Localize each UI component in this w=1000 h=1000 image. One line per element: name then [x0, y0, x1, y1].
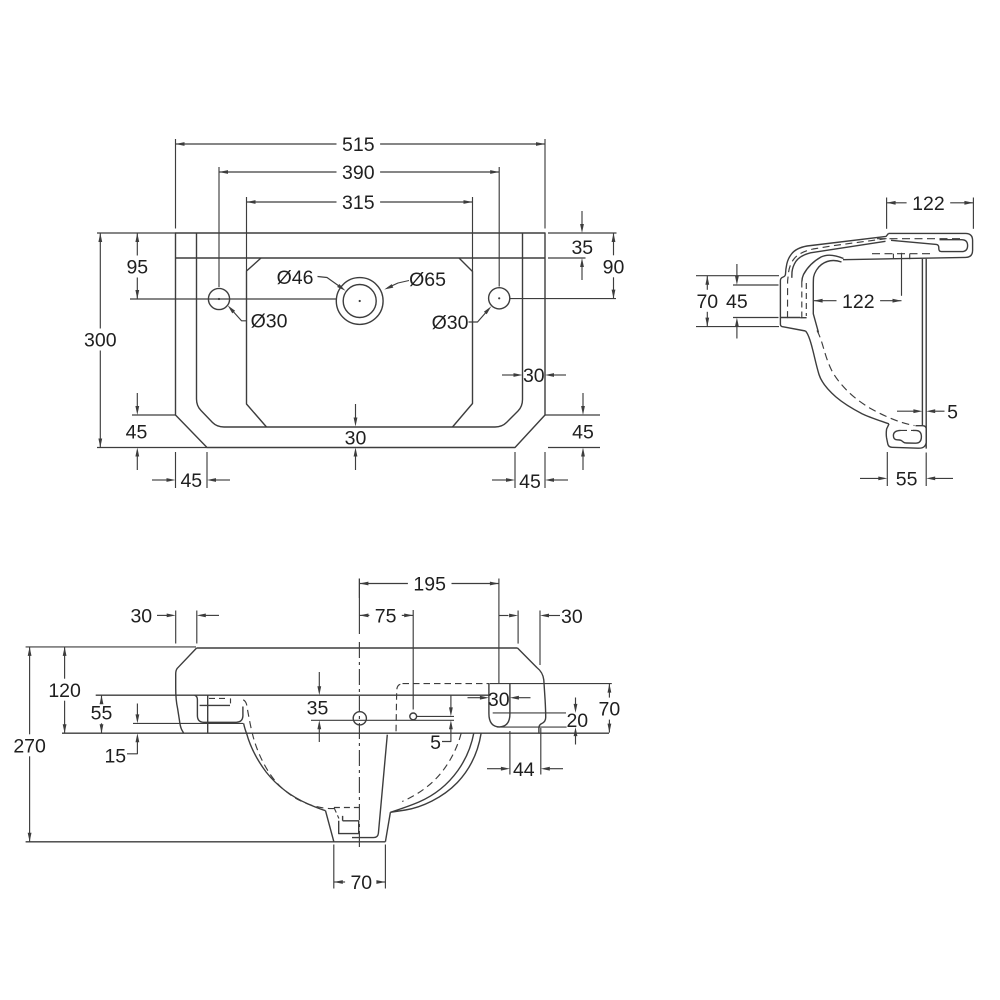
svg-text:55: 55: [91, 702, 113, 724]
dimension 35 front view centre: [318, 672, 320, 687]
front view: outer outline top and sides: [197, 647, 518, 649]
svg-text:30: 30: [345, 427, 367, 449]
dimension 35 right: [548, 257, 586, 259]
dimension 70 side view left: [696, 275, 779, 277]
dimension 30 right side: [502, 374, 514, 376]
front view: ledge pocket top line solid right: [489, 683, 612, 685]
svg-text:122: 122: [842, 291, 875, 313]
front view: left fixing pocket outline: [195, 695, 243, 722]
front view: bowl right underside curve: [390, 733, 481, 812]
svg-text:5: 5: [947, 401, 958, 423]
svg-text:70: 70: [696, 291, 718, 313]
dimension 55 side view bottom: [886, 452, 888, 486]
side view: rim slab outer outline: [843, 233, 973, 259]
side view: hidden dashed edge along slope and front: [788, 239, 887, 321]
dimension 270 front view left: [29, 647, 31, 734]
side view: bowl inner hidden dashed curve: [817, 331, 915, 426]
svg-text:35: 35: [571, 237, 593, 259]
svg-text:30: 30: [561, 606, 583, 628]
front view: deck edge line lower: [311, 719, 454, 721]
dimension 70 front view right: [608, 684, 610, 698]
front view: left pocket inner vertical: [207, 695, 209, 733]
dimension 45 left vertical: [132, 414, 176, 416]
svg-text:390: 390: [342, 162, 375, 184]
front view: left pocket inner horizontal: [200, 704, 230, 706]
top view: waste hole inner circle: [343, 285, 376, 318]
front view: trap inner rectangle: [339, 816, 359, 834]
side view: slab tick lines: [892, 254, 894, 259]
side view: bowl outer curve: [806, 331, 890, 424]
side view: bracket slot rounded recess: [893, 430, 921, 443]
dimension 315: [246, 197, 248, 271]
front view: trap hidden dashed horizontal: [334, 807, 359, 809]
top view: inner rim offset outline: [197, 233, 523, 427]
svg-text:95: 95: [126, 257, 148, 279]
dimension 195 front view: [358, 579, 360, 599]
top view: right tap hole circle: [489, 288, 510, 309]
svg-text:Ø46: Ø46: [277, 267, 314, 289]
svg-text:70: 70: [599, 699, 621, 721]
front view: deck edge line upper: [417, 715, 454, 717]
svg-text:270: 270: [13, 735, 46, 757]
dimension 5 side view wall gap: [897, 410, 914, 412]
dimension 300 left: [97, 447, 207, 449]
dimension 45 side view left: [733, 284, 779, 286]
svg-text:44: 44: [513, 759, 535, 781]
front view: channel bottom line: [497, 726, 567, 728]
front view: fixing slot 30mm: [489, 684, 510, 727]
dimension 44 front view: [509, 731, 511, 775]
front view: bottom edge line full width: [62, 732, 609, 734]
svg-text:195: 195: [413, 574, 446, 596]
side view: rim slab inner hidden dashed top: [877, 238, 963, 240]
dimension 30 bottom centre: [355, 404, 357, 418]
front view: centre line dash-dot: [358, 579, 360, 635]
dimension 20 front view: [575, 698, 577, 705]
top view: rim front edge line: [176, 257, 546, 259]
dimension 122 top of side view: [886, 198, 888, 229]
side view: rim slab lower hidden dashed line: [872, 253, 934, 255]
dimension 75 front view: [412, 610, 414, 710]
dimension 45 right vertical: [545, 414, 600, 416]
side view: bottom fixing bracket outline: [886, 424, 926, 448]
dimension 30 front view right: [499, 615, 509, 617]
top view: basin opening right edge with chamfer: [453, 258, 473, 427]
svg-text:55: 55: [896, 469, 918, 491]
svg-text:45: 45: [126, 421, 148, 443]
front view: bowl right solid arc: [390, 733, 474, 813]
top view: left tap hole circle: [208, 288, 229, 309]
svg-text:45: 45: [519, 471, 541, 493]
front view: overflow small circle 5mm: [410, 713, 417, 720]
side view: lip bottom edges: [800, 317, 806, 319]
side view: wall fixing line pair 5mm: [921, 259, 923, 426]
svg-text:Ø65: Ø65: [409, 269, 446, 291]
svg-text:30: 30: [488, 689, 510, 711]
dimension 45 bottom-right horizontal: [514, 452, 516, 488]
front view: trap inner pipe right: [352, 735, 387, 838]
dimension 120 front view left: [26, 646, 196, 648]
dimension 390: [218, 167, 220, 287]
svg-text:70: 70: [350, 872, 372, 894]
front view: bottom line with 270 extension: [26, 841, 386, 843]
svg-text:30: 30: [523, 365, 545, 387]
side view: outer top slope and front face: [780, 233, 888, 331]
front view: waste boss left slant: [326, 811, 334, 842]
svg-text:120: 120: [48, 680, 81, 702]
svg-text:45: 45: [572, 421, 594, 443]
svg-text:35: 35: [307, 698, 329, 720]
svg-text:315: 315: [342, 192, 375, 214]
front view: right hidden pocket dashed outline: [396, 684, 400, 733]
side view: rim drip lip inner arch: [813, 260, 841, 332]
side view: rim drip lip outer arch: [802, 255, 844, 281]
dimension 70 front view bottom: [333, 845, 335, 889]
side view: lip hidden middle edge: [805, 283, 807, 316]
svg-text:30: 30: [130, 606, 152, 628]
svg-text:75: 75: [375, 606, 397, 628]
dimension 122 middle of side view: [901, 253, 903, 296]
svg-text:122: 122: [912, 193, 945, 215]
dimension 45 bottom-left horizontal: [175, 452, 177, 488]
dimension 95 left: [97, 232, 176, 234]
dimension 55 front view left: [101, 695, 103, 701]
svg-text:15: 15: [104, 745, 126, 767]
front view: hidden overflow curve dashed into bowl: [243, 700, 337, 809]
front view: left pocket hidden dashes: [209, 697, 228, 699]
top view: tap hole centre line: [130, 298, 336, 300]
svg-text:Ø30: Ø30: [251, 311, 288, 333]
top view: basin opening left edge with chamfer: [247, 258, 267, 427]
front view: tap deck bottom line: [96, 694, 490, 696]
svg-text:90: 90: [603, 256, 625, 278]
svg-text:5: 5: [430, 732, 441, 754]
front view: rear ledge line 15 left: [133, 722, 243, 724]
svg-text:Ø30: Ø30: [432, 312, 469, 334]
svg-text:45: 45: [180, 470, 202, 492]
dimension 30 slot front view: [468, 697, 481, 699]
dimension 90 right: [548, 232, 617, 234]
svg-text:45: 45: [726, 291, 748, 313]
svg-text:515: 515: [342, 134, 375, 156]
side view: inner top slope line: [792, 241, 886, 277]
svg-text:300: 300: [84, 330, 117, 352]
front view: waste boss right slant: [385, 812, 390, 842]
front view: bowl right inner hidden dashed arc: [402, 733, 461, 801]
side view: rim slab inner solid recess: [891, 240, 968, 252]
front view: channel top line: [493, 712, 566, 714]
front view: waste centre circle: [353, 712, 366, 725]
svg-text:20: 20: [566, 710, 588, 732]
top view: waste hole outer circle: [336, 278, 383, 325]
dimension 515 top: [175, 139, 177, 229]
top view: basin outer outline: [176, 233, 546, 448]
front view: bowl left solid arc: [244, 723, 326, 810]
